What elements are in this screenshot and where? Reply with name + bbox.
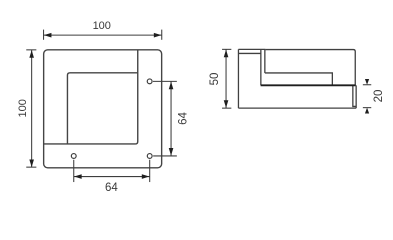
svg-text:20: 20 <box>373 90 385 103</box>
svg-text:100: 100 <box>93 20 111 32</box>
svg-text:64: 64 <box>105 182 118 194</box>
svg-text:100: 100 <box>17 99 29 117</box>
svg-text:64: 64 <box>178 111 190 124</box>
svg-text:50: 50 <box>209 73 221 86</box>
